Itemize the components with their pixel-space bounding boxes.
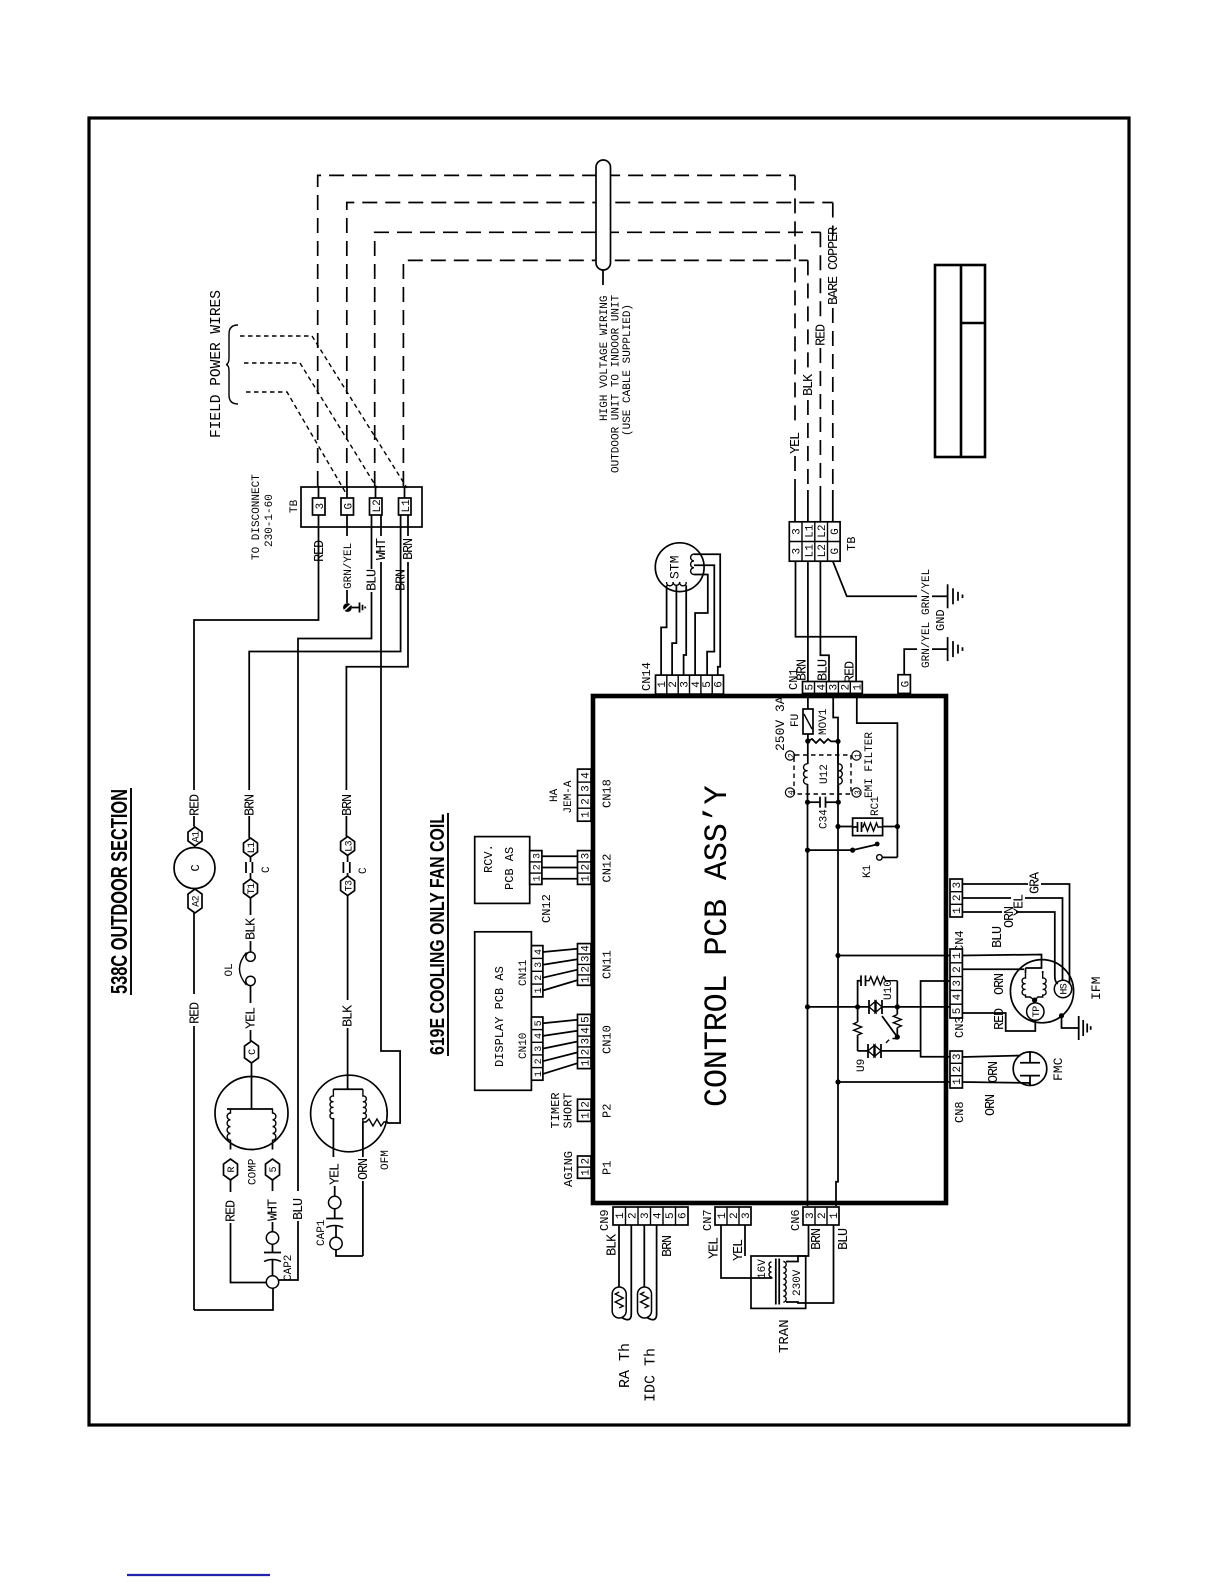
wire TP to CN3 pin5 (RED) (962, 1013, 1035, 1031)
wire OL to YEL label (250, 986, 252, 1003)
svg-text:RED: RED (189, 794, 204, 816)
U12 winding (upper rail) with coil (804, 741, 808, 802)
node B (junction dot) (835, 739, 840, 744)
svg-text:L2: L2 (817, 544, 829, 557)
svg-text:5: 5 (805, 684, 817, 691)
revision table block (935, 265, 985, 457)
svg-text:CN12: CN12 (601, 854, 615, 883)
wire bottom loop to CAP2 (197, 1288, 273, 1310)
RC1 snubber (853, 818, 883, 836)
svg-text:1: 1 (717, 1212, 729, 1219)
thermistor IDC Th (638, 1225, 657, 1320)
wire STM to CN14 pin2 (672, 585, 676, 675)
svg-text:CN11: CN11 (518, 959, 530, 986)
svg-text:3: 3 (580, 853, 592, 860)
svg-text:RED: RED (815, 324, 830, 346)
control PCB assembly box (593, 696, 946, 1203)
relay contact K1 (853, 842, 898, 861)
svg-text:OUTDOOR UNIT TO INDOOR UNIT: OUTDOOR UNIT TO INDOOR UNIT (611, 294, 623, 473)
cable sleeve symbol across buses (596, 160, 611, 270)
svg-text:TRAN: TRAN (777, 1319, 793, 1353)
svg-text:3: 3 (640, 1212, 652, 1219)
svg-text:RA Th: RA Th (617, 1343, 634, 1388)
svg-text:BRN: BRN (244, 794, 259, 816)
svg-text:T3: T3 (344, 880, 355, 891)
IFM winding coils (1022, 968, 1046, 1000)
wire BLK to OL (250, 941, 252, 952)
wire STM to CN14 pin3 (684, 585, 687, 675)
svg-text:BLK: BLK (245, 917, 260, 940)
svg-text:6: 6 (678, 1212, 690, 1219)
optocoupler dashed marks U9/U10 (886, 1039, 897, 1044)
svg-text:BRN: BRN (810, 1228, 825, 1250)
svg-text:PCB AS: PCB AS (503, 847, 517, 890)
svg-text:4: 4 (952, 993, 964, 1000)
terminal block TB (right, to indoor unit) (789, 522, 859, 561)
svg-text:TO DISCONNECT: TO DISCONNECT (251, 474, 263, 560)
wire STM to CN14 pin1 (661, 585, 667, 675)
wire STM to CN14 pin5 (694, 565, 714, 675)
svg-text:L1: L1 (247, 842, 258, 853)
svg-text:1: 1 (580, 811, 592, 818)
svg-text:JEM-A: JEM-A (563, 780, 575, 813)
svg-text:3: 3 (854, 790, 863, 795)
svg-text:U10: U10 (883, 980, 895, 1000)
U12 pin 4 (circled) (785, 788, 796, 797)
svg-text:GND: GND (934, 609, 948, 631)
svg-text:CAP1: CAP1 (316, 1219, 328, 1246)
svg-text:BRN: BRN (341, 794, 356, 816)
wire CN3 pin2 to IFM coil (ORN) (962, 968, 1024, 970)
label HA JEM-A (549, 780, 575, 813)
svg-text:L1: L1 (804, 544, 816, 558)
svg-text:BLU: BLU (366, 569, 381, 591)
svg-text:BLK: BLK (802, 373, 817, 396)
field power wire 3 (dashed) (246, 392, 347, 495)
wire T3 to OFM (BLK) (347, 896, 349, 1090)
thermal protector TP (1027, 1000, 1044, 1020)
svg-text:1: 1 (580, 1112, 592, 1119)
svg-text:2: 2 (840, 684, 852, 691)
svg-text:G: G (900, 681, 912, 688)
svg-text:ORN: ORN (987, 1061, 1002, 1083)
svg-text:2: 2 (817, 1212, 829, 1219)
title 619E COOLING ONLY FAN COIL (426, 813, 449, 1056)
svg-text:T1: T1 (247, 883, 258, 894)
svg-text:619E COOLING ONLY FAN COIL: 619E COOLING ONLY FAN COIL (426, 814, 449, 1055)
svg-text:C: C (261, 866, 273, 873)
U12 pin 1 (circled) (852, 751, 863, 760)
terminal A2 (188, 889, 203, 913)
svg-text:IFM: IFM (1089, 977, 1104, 1000)
svg-text:3: 3 (741, 1212, 753, 1219)
svg-text:1: 1 (533, 876, 544, 882)
svg-text:CN11: CN11 (601, 950, 615, 979)
wire TB(L1 right) to fan branch (BRN) (346, 515, 408, 790)
svg-text:ORN: ORN (357, 1158, 372, 1180)
svg-text:2: 2 (729, 1212, 741, 1219)
svg-text:L2: L2 (372, 499, 384, 512)
wire IFM frame to chassis ground (1059, 1013, 1079, 1028)
svg-text:1: 1 (952, 1078, 964, 1085)
svg-text:WHT: WHT (375, 538, 390, 560)
svg-text:4: 4 (787, 790, 796, 795)
svg-text:2: 2 (580, 966, 592, 973)
svg-text:G: G (830, 548, 842, 555)
svg-text:FIELD POWER WIRES: FIELD POWER WIRES (209, 290, 225, 438)
svg-text:L3: L3 (344, 840, 355, 851)
svg-text:1: 1 (580, 1169, 592, 1176)
svg-text:2: 2 (580, 864, 592, 871)
RCV connector CN12 pins 1-3 (530, 851, 544, 885)
svg-text:CN3: CN3 (953, 1016, 967, 1038)
svg-text:CN12: CN12 (540, 894, 554, 923)
svg-text:CN7: CN7 (701, 1209, 715, 1231)
svg-text:OL: OL (224, 963, 236, 976)
svg-text:1: 1 (829, 1212, 841, 1219)
svg-text:4: 4 (580, 1027, 592, 1034)
wire CN1 pin5 to fuse FU (807, 693, 809, 709)
connector P2 on PCB (pins 1-2) (578, 1099, 593, 1121)
U10 gate resistor branch (893, 981, 901, 1037)
svg-text:BLK: BLK (606, 1233, 621, 1256)
svg-text:R: R (227, 1167, 238, 1173)
svg-text:3: 3 (952, 882, 964, 889)
U10 gate lead (882, 1016, 897, 1037)
brace for field power wires (226, 325, 238, 404)
wire TB(G) to ground screw (GRN/YEL) (346, 515, 348, 603)
wire CN7 pin1 to transformer (YEL) (721, 1225, 772, 1278)
svg-text:YEL: YEL (245, 1007, 260, 1029)
svg-text:4: 4 (691, 681, 703, 688)
svg-text:5: 5 (269, 1167, 280, 1173)
svg-text:WHT: WHT (267, 1199, 282, 1221)
svg-text:BRN: BRN (661, 1235, 676, 1257)
node M (junction dot, gate) (895, 1004, 900, 1009)
svg-text:2: 2 (787, 753, 796, 758)
title 538C OUTDOOR SECTION (106, 788, 132, 995)
U12 pin 3 (circled) (852, 788, 863, 797)
svg-text:3: 3 (580, 1038, 592, 1045)
svg-text:EMI FILTER: EMI FILTER (864, 732, 876, 798)
svg-text:BLU: BLU (817, 659, 832, 681)
svg-text:ORN: ORN (993, 973, 1008, 995)
svg-text:TB: TB (289, 499, 301, 513)
connector CN8 (pins 1-3) (950, 1051, 964, 1088)
svg-text:OFM: OFM (380, 1150, 392, 1170)
wires DISPLAY CN10 to PCB CN10 (543, 1020, 578, 1074)
ground screw terminal (343, 603, 359, 612)
wire CN6 pin3 to transformer (BRN) (786, 1225, 809, 1262)
motor IFM (1010, 960, 1073, 1023)
svg-text:2: 2 (580, 1158, 592, 1165)
triac U10 (869, 1000, 882, 1014)
connector CN10 on PCB (pins 1-5) (578, 1014, 593, 1068)
svg-text:TB: TB (845, 537, 859, 551)
svg-text:RED: RED (844, 661, 859, 683)
svg-text:CN10: CN10 (518, 1033, 530, 1059)
svg-text:2: 2 (533, 864, 544, 870)
label TIMER SHORT (549, 1092, 576, 1128)
wire BRN label to L1 lug (248, 816, 250, 838)
svg-text:3: 3 (580, 955, 592, 962)
wire FU to node A (807, 734, 809, 741)
wire 5 to CAP2 (WHT) (272, 1180, 274, 1232)
wire TB(L2) to CN1 pin3 (BLU) (820, 561, 829, 681)
terminal block TB (disconnect) (289, 487, 422, 527)
svg-text:3: 3 (952, 980, 964, 987)
terminal lug 5 (266, 1159, 281, 1180)
terminal A1 (188, 827, 203, 846)
svg-text:HA: HA (549, 788, 561, 802)
TB terminal L2 (370, 498, 384, 515)
transformer TRAN (751, 1256, 806, 1308)
high-voltage bus wire 2: TB G to indoor (BARE COPPER) (347, 203, 833, 522)
connector P1 on PCB (pins 1-2) (578, 1156, 593, 1178)
fuse FU (803, 709, 813, 734)
svg-text:TP: TP (1032, 1006, 1043, 1017)
svg-text:3: 3 (792, 528, 804, 535)
U12 winding (lower rail) with coil (838, 741, 842, 802)
terminal lug L3 (341, 837, 356, 856)
wire TB(L2 left) to CAP2 bottom node (BLU) (279, 515, 372, 1280)
wire CN1 pin3 to node B (833, 693, 838, 741)
wire rail2 to CN3 pin1 (838, 955, 950, 957)
svg-text:CAP2: CAP2 (283, 1255, 295, 1281)
svg-text:RC1: RC1 (870, 796, 882, 816)
connector CN4 (pins 1-3) (950, 879, 964, 917)
svg-text:STM: STM (668, 556, 683, 579)
node F (junction dot) (835, 824, 840, 829)
compressor motor C (174, 848, 215, 889)
capacitor CAP1 (326, 1196, 343, 1249)
svg-text:4: 4 (580, 945, 592, 952)
connector CN14 on PCB (pins 1-6) (656, 675, 726, 694)
terminal lug L1 (244, 838, 259, 857)
svg-text:A2: A2 (192, 895, 203, 906)
terminal lug T3 (341, 876, 356, 896)
svg-text:CN18: CN18 (601, 779, 615, 808)
svg-text:230V: 230V (792, 1269, 804, 1296)
svg-text:1: 1 (580, 1059, 592, 1066)
wire CN4 pin3 to IFM hall sensor (GRA) (962, 884, 1069, 984)
svg-text:3: 3 (315, 503, 327, 510)
motor COMP (compressor) (215, 1077, 288, 1150)
svg-text:230-1-60: 230-1-60 (264, 494, 276, 547)
svg-text:RED: RED (313, 540, 328, 562)
capacitor FMC (1013, 1052, 1047, 1086)
wire TB(3) to CN1 pin1 (RED) (796, 561, 857, 681)
svg-text:CN14: CN14 (640, 662, 654, 691)
U10 snubber branch (R+C) (858, 975, 898, 1007)
capacitor C34 (808, 797, 839, 808)
U10 left resistor branch (854, 1007, 862, 1051)
DISPLAY connector CN10 pins 1-5 (531, 1017, 544, 1080)
wire node B to RC1 rail (838, 741, 853, 826)
svg-text:1: 1 (615, 1212, 627, 1219)
high-voltage bus wire 1: TB3 to indoor (YEL) (318, 175, 795, 521)
svg-text:3: 3 (680, 681, 692, 688)
node C (junction dot) (805, 800, 810, 805)
node E (junction dot) (850, 847, 855, 852)
wire CN9 pin1 to RA thermistor (BLK) (618, 1225, 620, 1287)
main rail 1 (to CN6 pin3) (807, 850, 809, 1206)
svg-text:BLU: BLU (837, 1228, 852, 1250)
svg-text:C: C (189, 864, 203, 871)
svg-text:L1: L1 (804, 524, 816, 538)
wire RC1 to CN1 pin1 rail (883, 826, 898, 828)
wire TB(L1) to CN1 pin5 (BRN) (807, 561, 809, 681)
terminal lug T1 (244, 879, 259, 898)
svg-text:U9: U9 (856, 1059, 868, 1072)
svg-text:1: 1 (580, 875, 592, 882)
node N (gate junction dot) (895, 1034, 900, 1039)
wire TB(3) to compressor A1 (RED main) (194, 515, 319, 1310)
svg-text:3: 3 (580, 785, 592, 792)
svg-text:CN10: CN10 (601, 1025, 615, 1054)
wire OFM aux resistor to TB L2 right (WHT) (381, 515, 400, 1123)
overload protector OL (240, 952, 256, 986)
wire T1 to BLK label (250, 898, 252, 915)
svg-text:GRN/YEL: GRN/YEL (921, 622, 933, 668)
wire G box to chassis ground (GRN/YEL) (904, 649, 947, 675)
svg-text:HIGH VOLTAGE WIRING: HIGH VOLTAGE WIRING (599, 296, 611, 421)
U12 pin 2 (circled) (785, 751, 796, 760)
svg-text:3: 3 (533, 853, 544, 859)
svg-text:A1: A1 (192, 831, 203, 842)
node K (junction dot rail2 / CN8 pin1 branch) (835, 1079, 840, 1084)
wires RCV to CN12 (542, 856, 578, 879)
wire CN7 pin3 to transformer (YEL) (744, 1225, 746, 1256)
connector CN9 (pins 1-6) (613, 1207, 690, 1225)
svg-text:2: 2 (580, 1049, 592, 1056)
svg-text:CN6: CN6 (789, 1209, 803, 1231)
ground symbol (screw) (360, 603, 366, 613)
svg-text:IDC Th: IDC Th (643, 1348, 660, 1402)
node J (junction dot rail2 / CN3 pin1 branch) (835, 953, 840, 958)
wire U9 branch vertical (858, 1050, 921, 1052)
varistor MOV1 (808, 739, 838, 743)
svg-text:CN1: CN1 (787, 668, 801, 690)
note HIGH VOLTAGE WIRING (599, 294, 634, 473)
svg-text:HS: HS (1060, 983, 1071, 994)
TB terminal G (341, 498, 355, 515)
motor STM (655, 543, 704, 592)
svg-text:YEL: YEL (732, 1239, 747, 1261)
wire CN8 pin3 to FMC (ORN) (962, 1056, 1020, 1058)
terminal lug C (compressor) (245, 1041, 260, 1063)
svg-text:RED: RED (225, 1200, 240, 1222)
field power wire 1 (dashed) (240, 336, 407, 488)
connector CN11 on PCB (pins 1-4) (578, 944, 593, 986)
svg-text:2: 2 (580, 798, 592, 805)
svg-text:FU: FU (790, 714, 802, 727)
svg-text:2: 2 (952, 1066, 964, 1073)
wire YEL to C lug (250, 1030, 252, 1041)
svg-text:YEL: YEL (1013, 894, 1028, 916)
svg-text:G: G (830, 528, 842, 535)
wire TB(G) to chassis ground (GRN/YEL) (833, 561, 948, 596)
svg-text:FMC: FMC (1051, 1057, 1066, 1081)
leader line from cable sleeve (602, 270, 604, 285)
STM winding coil (vertical) (667, 582, 687, 586)
svg-text:COMP: COMP (248, 1158, 260, 1185)
node IFM common (junction dot) (1032, 997, 1037, 1002)
svg-text:BARE COPPER: BARE COPPER (827, 227, 842, 305)
svg-text:CN8: CN8 (953, 1101, 967, 1123)
svg-text:P2: P2 (601, 1104, 615, 1118)
wire C lug to compressor COMP (251, 1063, 253, 1077)
wire CN4 pin2 to IFM hall sensor (YEL) (962, 898, 1062, 981)
svg-text:BRN: BRN (402, 538, 417, 560)
chassis ground symbol (G box) (948, 637, 963, 661)
svg-text:GRA: GRA (1029, 871, 1044, 894)
svg-text:YEL: YEL (789, 432, 804, 454)
label TO DISCONNECT 230-1-60 (251, 474, 276, 560)
wire STM to CN14 pin4 (694, 575, 708, 676)
RCV PCB AS box (475, 837, 530, 904)
svg-text:GRN/YEL: GRN/YEL (343, 543, 355, 589)
DISPLAY connector CN11 pins 1-4 (531, 946, 544, 997)
svg-text:3: 3 (828, 684, 840, 691)
svg-text:3: 3 (792, 548, 804, 555)
wires DISPLAY CN11 to PCB CN11 (543, 949, 578, 991)
svg-text:YEL: YEL (708, 1237, 723, 1259)
node D (junction dot) (836, 800, 841, 805)
motor OFM (311, 1075, 388, 1152)
svg-text:RED: RED (993, 1008, 1008, 1030)
svg-text:G: G (343, 503, 355, 510)
svg-text:1: 1 (657, 681, 669, 688)
wire CN3 pin5 branch (through triac U10) (808, 1006, 951, 1008)
svg-text:1: 1 (854, 753, 863, 758)
node I (junction dot rail1 / CN3 pin5 branch) (805, 1004, 810, 1009)
G terminal box on PCB edge (898, 675, 912, 694)
TB terminal L1 (399, 498, 413, 515)
svg-text:1: 1 (852, 684, 864, 691)
blue underline mark bottom-left of page (127, 1574, 270, 1576)
field power wire 2 (dashed) (244, 363, 377, 488)
triac U9 (868, 1044, 881, 1058)
internal link CN3 pin3 to CN8 pin3 (921, 981, 950, 1057)
connector CN18 on PCB (pins 1-4) (578, 769, 593, 821)
svg-text:L1: L1 (401, 499, 413, 513)
wire CAP1 to ORN wire (336, 1250, 363, 1256)
svg-text:CONTROL PCB ASS’Y: CONTROL PCB ASS’Y (699, 786, 736, 1107)
EMI filter U12 (dashed outline) (794, 755, 851, 794)
connector CN7 (pins 1-3) (715, 1207, 753, 1225)
svg-text:C34: C34 (819, 809, 831, 829)
svg-text:K1: K1 (862, 864, 874, 878)
capacitor CAP2 (264, 1232, 281, 1288)
wire RED left run to CAP2 bottom node (193, 1026, 195, 1310)
wire compressor loop bottom (A2 to CAP2 node) (193, 913, 195, 994)
high-voltage bus wire 4: TB L1 to indoor (BLK) (403, 260, 808, 521)
node A (junction dot) (805, 738, 810, 743)
thermistor RA Th (612, 1225, 631, 1320)
svg-text:5: 5 (702, 681, 714, 688)
svg-text:RED: RED (189, 1002, 204, 1024)
main rail 2 (to CN6 pin1) (836, 827, 838, 1207)
wire TB(L1 left) to contactor branch (BRN) (249, 515, 400, 790)
svg-text:CN9: CN9 (598, 1209, 612, 1231)
svg-text:2: 2 (580, 1101, 592, 1108)
connector CN12 on PCB (pins 1-3) (578, 851, 593, 885)
hall sensor HS (1054, 980, 1071, 997)
wire BRN label to L3 lug (345, 816, 347, 837)
svg-text:C: C (248, 1049, 259, 1055)
svg-text:YEL: YEL (329, 1163, 344, 1185)
